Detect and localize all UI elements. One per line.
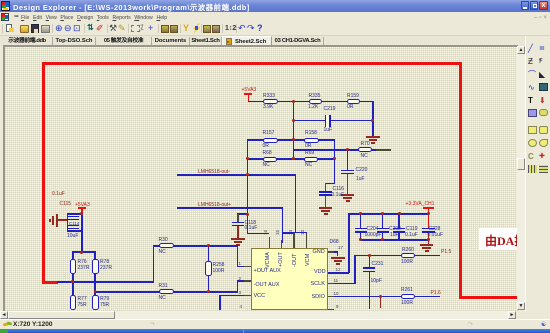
net LMH6518-out+ label xyxy=(198,203,231,208)
wire R30 row xyxy=(153,245,238,247)
ground for C220 xyxy=(341,194,355,196)
red highlight border (top) xyxy=(42,62,461,65)
wire resistor tee xyxy=(72,251,96,253)
wire top rail xyxy=(248,101,373,103)
wire row y281 xyxy=(57,281,154,283)
capacitor C115 xyxy=(68,216,79,218)
ground for C116 xyxy=(319,207,333,209)
wire vert VCMA path xyxy=(247,139,249,234)
resistor R261 xyxy=(401,294,415,299)
wire R78 bottom xyxy=(94,274,96,293)
resistor R69 xyxy=(304,157,318,162)
pin numbers top xyxy=(264,230,269,235)
wire main left rail xyxy=(81,213,83,252)
node rail to resistor tee xyxy=(80,251,83,254)
capacitor C228 xyxy=(422,228,435,230)
wire vert to ground G1 xyxy=(372,101,374,136)
wire net out- xyxy=(177,174,296,176)
IC U-D68 body xyxy=(251,248,328,310)
title text xyxy=(13,2,250,13)
wire pin2 xyxy=(237,280,245,282)
wire vert out+ to pin15 xyxy=(282,207,284,243)
IC rotated pin names xyxy=(266,252,271,268)
wire row y291 xyxy=(94,291,238,293)
wire vert R158-C116 xyxy=(334,139,336,184)
wire pin17 GND xyxy=(328,251,334,253)
net P1.5 label xyxy=(441,250,451,255)
capacitor C202 xyxy=(382,213,384,228)
wire C219 row xyxy=(293,120,373,122)
capacitor C220 xyxy=(347,149,349,170)
node out- crossing xyxy=(246,173,249,176)
resistor R77 xyxy=(70,295,77,310)
node R258 bottom xyxy=(207,290,210,293)
node R333/R335 junction xyxy=(292,100,295,103)
annotation text box xyxy=(479,228,517,251)
resistor R31 xyxy=(159,289,174,294)
horizontal scrollbar xyxy=(0,311,516,319)
net P1.6 label xyxy=(431,291,441,296)
wire cap pair bottom xyxy=(67,230,82,232)
ground pin17 xyxy=(331,257,345,259)
node bottom rail taps xyxy=(359,238,362,241)
resistor R333 xyxy=(263,99,278,104)
tab bar xyxy=(0,36,550,47)
node C118 tap xyxy=(246,213,249,216)
wire +3.3 rail xyxy=(349,213,429,215)
wire R70 right stub xyxy=(376,149,391,151)
resistor R76 xyxy=(70,259,77,274)
node rail taps xyxy=(359,212,362,215)
title bar xyxy=(0,0,550,12)
resistor R158 xyxy=(304,138,319,143)
node C219 right junction xyxy=(371,119,374,122)
wire R70 row xyxy=(294,149,377,151)
wire R260 row xyxy=(354,255,440,257)
wire elbow to pin16 xyxy=(247,233,270,235)
node R258 top xyxy=(207,244,210,247)
net LMH6518-out- label xyxy=(198,170,230,175)
resistor R159 xyxy=(347,99,361,104)
wire R78 top stub xyxy=(94,251,96,259)
node SDIO tap xyxy=(379,295,382,298)
right tool panel xyxy=(525,36,550,311)
resistor R258 (vertical) xyxy=(208,245,210,261)
wire R77 stub xyxy=(72,281,74,295)
resistor R78 xyxy=(92,259,99,274)
pin numbers right xyxy=(338,246,343,251)
ground left (rotated) xyxy=(58,219,67,221)
canvas xyxy=(3,45,518,311)
wire vert x153 xyxy=(153,245,155,282)
wire R157 row xyxy=(248,139,335,141)
ground for C118 xyxy=(231,238,245,240)
resistor R79 xyxy=(92,295,99,310)
capacitor C118 xyxy=(237,213,248,215)
red highlight border (left) xyxy=(42,62,45,284)
ground G1 xyxy=(366,136,380,138)
wire pin1 xyxy=(237,266,245,268)
wire vert R333 node xyxy=(293,101,295,160)
wire VDD riser xyxy=(348,213,350,273)
wire R68 row xyxy=(248,158,335,160)
status bar xyxy=(0,319,550,329)
wire pin10 SDIO row xyxy=(328,296,334,298)
node R78 bottom xyxy=(94,290,97,293)
node junctions mid rows xyxy=(292,138,295,141)
node C231 tap xyxy=(368,254,371,257)
vertical scrollbar xyxy=(517,46,525,310)
menu bar xyxy=(0,12,550,22)
resistor R30 xyxy=(159,243,174,248)
IC pin names right column xyxy=(313,250,325,255)
resistor R70 xyxy=(358,147,372,152)
wire elbow pin14 xyxy=(282,232,295,234)
window buttons xyxy=(521,1,529,10)
wire caps bottom rail xyxy=(360,239,429,241)
capacitor C231 xyxy=(369,255,371,268)
wire pin3 VCC xyxy=(244,295,251,297)
wire out- elbow to pin13 xyxy=(295,232,307,234)
ground +3.3 caps xyxy=(420,244,434,246)
resistor R260 xyxy=(401,253,415,258)
wire pin12 VDD xyxy=(328,272,349,274)
wire cap pair top xyxy=(67,213,82,215)
wire cap pair left xyxy=(67,213,69,232)
IC pin stubs top xyxy=(269,237,271,248)
capacitor C119 xyxy=(398,213,400,228)
wire vert out- to pin13 xyxy=(295,174,297,232)
red highlight border (right) xyxy=(459,62,462,299)
wire pin1 drop xyxy=(237,245,239,267)
wire R76 top stub xyxy=(72,251,74,259)
node R76 bottom xyxy=(71,280,74,283)
resistor R68 xyxy=(263,157,277,162)
resistor R157 xyxy=(263,138,278,143)
pin numbers left xyxy=(239,262,242,267)
power +5VA3 (left) xyxy=(52,192,65,197)
wire pin11 SCLK xyxy=(328,283,334,285)
wire pin9 stub xyxy=(328,309,334,311)
IC pin names left column xyxy=(254,269,281,274)
wire R79 stub xyxy=(94,291,96,296)
port drop (maroon) xyxy=(380,296,382,308)
power +5VA3 (top) xyxy=(242,88,257,93)
red highlight border (bottom left) xyxy=(42,281,58,284)
capacitor C116 xyxy=(326,183,336,185)
app icon xyxy=(1,1,10,11)
wire pin2 riser xyxy=(237,280,239,292)
capacitor C204 xyxy=(360,213,362,228)
resistor R335 xyxy=(309,99,322,104)
wire net out+ xyxy=(177,207,284,209)
node C219 left junction xyxy=(292,119,295,122)
red highlight border (bottom right) xyxy=(459,296,517,299)
capacitor C114 xyxy=(68,225,79,227)
capacitor C219 xyxy=(325,115,327,127)
node power tap left xyxy=(80,212,83,215)
taskbar xyxy=(0,329,550,333)
toolbar xyxy=(0,22,550,36)
wire R76 bottom xyxy=(72,274,74,283)
power +3.3VA_CH1 xyxy=(406,202,435,207)
